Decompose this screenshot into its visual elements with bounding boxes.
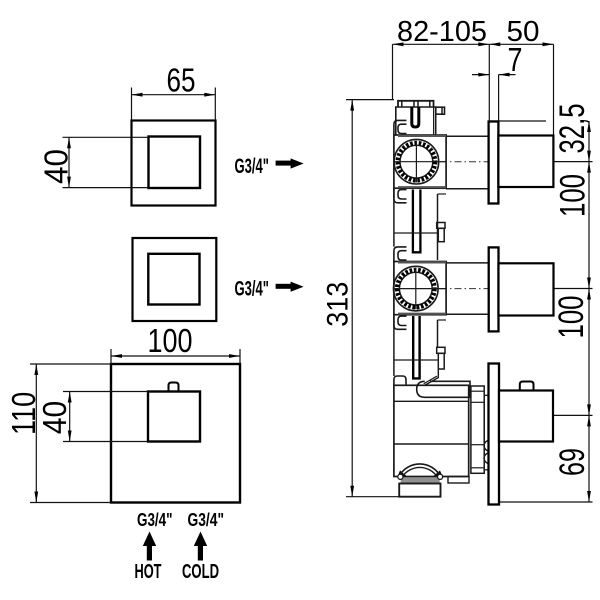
svg-text:HOT: HOT xyxy=(135,561,162,583)
svg-text:G3/4": G3/4" xyxy=(188,510,225,530)
svg-text:G3/4": G3/4" xyxy=(137,510,173,530)
svg-text:100: 100 xyxy=(552,296,591,339)
svg-text:G3/4": G3/4" xyxy=(235,278,270,301)
svg-text:100: 100 xyxy=(554,174,593,217)
svg-text:40: 40 xyxy=(38,149,75,184)
svg-text:40: 40 xyxy=(36,401,73,434)
svg-text:32,5: 32,5 xyxy=(553,104,592,154)
svg-text:82-105: 82-105 xyxy=(397,16,487,48)
svg-text:69: 69 xyxy=(553,448,592,476)
svg-text:65: 65 xyxy=(167,62,196,99)
svg-text:G3/4": G3/4" xyxy=(235,155,270,178)
svg-text:313: 313 xyxy=(322,282,355,327)
svg-text:100: 100 xyxy=(148,322,193,359)
svg-text:COLD: COLD xyxy=(182,561,219,583)
svg-text:7: 7 xyxy=(508,41,523,78)
